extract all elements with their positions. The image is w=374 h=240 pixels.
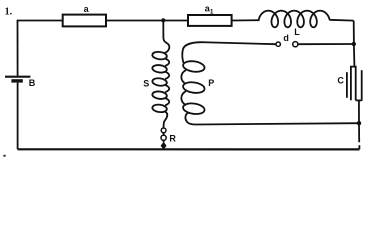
wire S-bottom lead to R	[164, 112, 168, 128]
inductor L	[259, 11, 330, 28]
svg-text:S: S	[143, 78, 149, 88]
wire left vertical battery bottom lead	[17, 83, 19, 150]
wire d-line right segment	[298, 43, 354, 45]
node junction d-line right vertical	[352, 42, 356, 46]
capacitor C plate inner-right	[354, 67, 355, 101]
capacitor C bottom bar	[356, 99, 362, 101]
transformer primary coil P (3 turns)	[181, 60, 205, 115]
wire bottom horizontal	[18, 148, 360, 150]
capacitor C plate outer-right	[361, 70, 363, 101]
battery B plate short thick	[11, 79, 22, 82]
capacitor C plate inner-left (inverted U left leg)	[351, 67, 355, 101]
wire P-top lead arc from d-line	[182, 42, 208, 63]
resistor a	[63, 15, 106, 27]
ink speck bottom-left	[3, 155, 5, 157]
resistor R bead 1	[161, 128, 166, 133]
resistor R bead 2	[161, 135, 166, 140]
wire R bead link	[163, 133, 165, 135]
svg-text:P: P	[208, 78, 214, 88]
node junction S-top	[161, 18, 165, 22]
svg-text:R: R	[169, 133, 176, 143]
wire L to top-right corner	[329, 19, 354, 22]
battery B plate long	[5, 76, 30, 78]
wire bottom-right upward stub	[358, 145, 360, 149]
svg-text:L: L	[294, 27, 300, 37]
resistor a1	[188, 15, 232, 26]
wire a1 to L	[232, 19, 260, 21]
resistor R junction diamond	[161, 142, 167, 150]
switch d contact left	[276, 42, 280, 46]
svg-text:d: d	[283, 33, 289, 43]
wire capacitor bottom lead	[358, 100, 360, 142]
svg-text:B: B	[29, 78, 36, 88]
wire P bottom horizontal to capacitor	[196, 123, 359, 124]
svg-text:a: a	[84, 4, 90, 14]
capacitor C plate outer-left	[346, 72, 348, 98]
node junction capacitor bottom	[357, 121, 361, 125]
wire P-bottom lead to bottom line	[185, 112, 196, 124]
wire right vertical top	[353, 21, 356, 66]
wire S-top lead	[163, 20, 169, 52]
wire left vertical battery top lead	[17, 20, 19, 76]
svg-text:a1: a1	[205, 4, 214, 16]
transformer secondary coil S (5 turns)	[152, 51, 169, 113]
svg-text:1.: 1.	[5, 6, 13, 17]
svg-text:C: C	[337, 75, 344, 85]
wire a to junction	[106, 20, 188, 22]
wire d-line left segment	[208, 42, 276, 44]
wire top horizontal left	[18, 20, 63, 22]
wire R bead link 2	[163, 140, 165, 142]
switch d contact right	[293, 42, 298, 47]
